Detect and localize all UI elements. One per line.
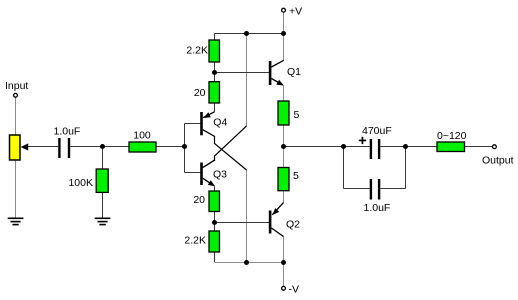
svg-text:Q1: Q1 [287,66,301,78]
svg-text:1.0uF: 1.0uF [54,126,81,138]
wire top rail [215,33,284,35]
resistor 5 bottom [278,168,289,191]
wire cap loop right [405,147,407,189]
svg-text:100: 100 [133,129,151,141]
wire R out to output terminal [465,146,493,148]
svg-text:2.2K: 2.2K [184,234,206,246]
node dot output mid [281,144,286,149]
wire +V stub [283,12,285,33]
wire R20 top to Q4 emitter [214,103,216,112]
resistor 20 top [209,82,220,103]
svg-text:20: 20 [193,194,205,206]
wire Q3 emitter to R20 bottom [214,187,216,192]
wire R5 bottom to Q2 emitter [283,191,285,203]
wire input stub [15,97,17,135]
transistor Q3 [200,160,215,186]
resistor 20 bottom [209,191,220,212]
wire C1 to R100 [70,146,129,148]
wire R100K to ground [102,192,104,218]
wire pot to ground [15,160,17,218]
wire pot wiper to C1 [27,146,58,148]
capacitor C2 470uF [359,137,381,159]
wire Q4 collector cross diagonal [203,130,247,170]
wire R100 to bases node [156,146,185,148]
svg-text:2.2K: 2.2K [186,44,208,56]
wire Q2 collector vertical [283,237,285,263]
wire R2.2K top lead to rail [214,34,216,41]
terminal Input [14,93,18,97]
node dot 2.2K/20 top junction [212,70,217,75]
ground R100K [95,218,111,224]
resistor 2.2K top [209,40,220,62]
resistor R100 [129,142,156,152]
wire cap loop left [343,147,345,189]
wire C2 to R out [380,146,437,148]
wire mid node to R5 bottom [283,147,285,168]
svg-text:+V: +V [289,5,302,17]
node dot cap left [341,144,346,149]
svg-text:-V: -V [289,284,300,296]
wire Q4 collector vertical to bottom rail [246,170,248,263]
wire R2.2K bottom to rail [214,252,216,262]
svg-text:Output: Output [482,154,514,166]
svg-text:Input: Input [5,80,28,92]
wire base link vertical [184,124,186,173]
wire cap loop bottom right [380,188,405,190]
wire node B to Q2 base [215,222,270,224]
terminal -V [282,286,286,290]
wire Q4 base [185,123,201,125]
terminal +V [282,8,286,12]
wire -V stub [283,263,285,287]
wire R20 bottom to R2.2K bottom [214,212,216,232]
transistor Q1 [269,60,284,85]
wire Q1 collector vertical [283,34,285,61]
wire cap loop bottom left [344,188,370,190]
potentiometer VR1 [10,135,29,160]
node dot cap right [403,144,408,149]
svg-text:0~120: 0~120 [437,130,467,142]
wire Q3 collector cross diagonal [203,126,247,168]
svg-text:Q3: Q3 [213,168,227,180]
svg-text:100K: 100K [68,177,93,189]
wire R2.2K top to R20 top [214,62,216,82]
svg-text:470uF: 470uF [362,125,392,137]
capacitor C3 1.0uF output [370,179,381,200]
node dot top rail right [281,31,286,36]
terminal Output [493,145,497,149]
wire Q3 collector vertical to top rail [246,34,248,127]
node dot 20/2.2K bottom junction [212,220,217,225]
svg-text:5: 5 [294,109,300,121]
capacitor C1 1.0uF [58,138,70,158]
svg-text:1.0uF: 1.0uF [364,202,391,214]
svg-text:5: 5 [293,170,299,182]
wire node to R100K [102,147,104,170]
resistor 5 top [278,101,289,125]
resistor 2.2K bottom [209,231,220,252]
node dot bottom rail right [281,260,286,265]
resistor R100K [96,169,108,192]
transistor Q4 [200,112,214,136]
wire bottom rail [215,262,284,264]
wire node A to Q1 base [215,72,270,74]
svg-text:20: 20 [194,87,206,99]
ground pot [8,218,24,224]
node dot bottom rail left [244,260,249,265]
svg-text:Q2: Q2 [286,219,300,231]
node dot C1-R100K junction [100,144,105,149]
svg-text:Q4: Q4 [213,116,227,128]
wire R5 top to mid node [283,125,285,147]
wire Q3 base [185,172,201,174]
transistor Q2 [269,203,284,237]
node dot base junction [182,144,187,149]
wire Q1 emitter vertical [283,86,285,102]
resistor 0~120 [437,142,465,152]
wire output node left [284,146,370,148]
node dot top rail left [244,31,249,36]
